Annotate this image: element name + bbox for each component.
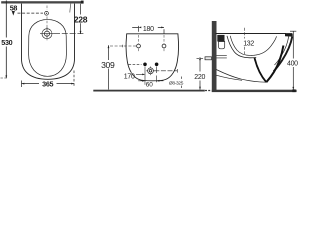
text 170	[123, 73, 145, 81]
dashed leader to small hole	[18, 12, 44, 14]
inlet lines wall to bowl	[217, 56, 227, 58]
wall	[212, 21, 217, 92]
svg-text:180: 180	[143, 26, 154, 33]
text 60	[145, 82, 153, 87]
wall bar top	[1, 1, 83, 4]
svg-text:132: 132	[243, 41, 254, 48]
bowl back inner	[230, 36, 255, 56]
dimension 530 line	[5, 0, 7, 78]
bidet body outline (plan)	[22, 4, 75, 80]
centerline dashes	[46, 6, 48, 30]
dim 365	[22, 71, 75, 88]
rear body outline	[126, 34, 178, 81]
svg-text:309: 309	[101, 60, 115, 70]
svg-text:60: 60	[146, 81, 154, 88]
svg-text:228: 228	[74, 15, 88, 25]
bowl opening oval	[29, 20, 67, 77]
svg-text:Ø8-325: Ø8-325	[169, 81, 184, 87]
floor right	[212, 89, 297, 92]
dim 180	[132, 26, 164, 34]
text 400	[287, 59, 299, 68]
dashed ext bottom-left	[1, 77, 7, 79]
inner rim line right	[70, 4, 71, 13]
bowl back outer	[227, 36, 256, 58]
fixing hole right	[162, 35, 166, 52]
dim 400	[290, 31, 296, 89]
svg-text:170: 170	[124, 74, 135, 81]
fixing hole left	[137, 35, 141, 52]
faucet body	[219, 42, 225, 49]
dim 60	[138, 67, 163, 85]
trap V left	[255, 58, 267, 82]
inlet dots	[129, 63, 159, 67]
underside lower line	[216, 75, 242, 80]
small hole	[45, 11, 49, 15]
svg-text:530: 530	[1, 38, 12, 47]
dim 220	[199, 57, 201, 89]
underside line	[216, 70, 266, 83]
dim 228 line	[80, 4, 82, 34]
svg-text:220: 220	[194, 74, 205, 81]
bowl interior front	[255, 36, 276, 55]
dashed leader drain right	[154, 70, 177, 72]
floor middle	[93, 90, 211, 92]
label tick	[180, 77, 182, 90]
drain circle	[146, 67, 154, 76]
front face outer	[274, 36, 293, 71]
dim 309 line	[108, 45, 110, 89]
svg-text:400: 400	[287, 60, 298, 67]
front face inner	[275, 36, 289, 65]
faucet block	[217, 35, 224, 42]
svg-text:365: 365	[42, 79, 53, 88]
ext line faucet to 228	[54, 33, 84, 35]
rim top line	[216, 33, 287, 35]
bolt stub side	[197, 57, 212, 60]
arrow 58 down	[12, 11, 14, 15]
dashed ext to 309	[110, 45, 136, 47]
faucet hole	[40, 27, 54, 40]
dashed 132 centerline	[243, 28, 245, 54]
trap V right	[266, 46, 283, 83]
rim nose	[285, 33, 293, 37]
